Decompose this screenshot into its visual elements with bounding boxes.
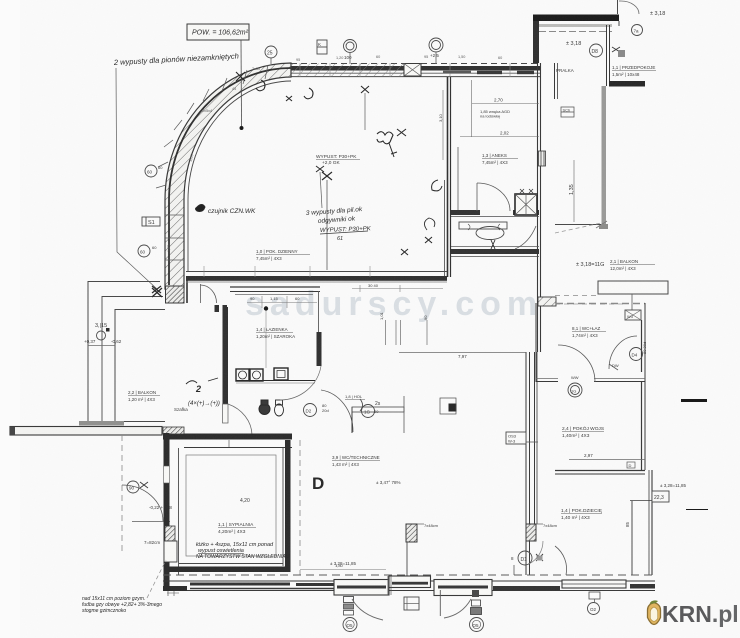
bathroom label — [256, 327, 295, 339]
kitchen door arc 2 — [515, 226, 536, 249]
living room right wall — [445, 77, 451, 277]
bottom door assembly — [388, 576, 484, 632]
bathroom right wall — [317, 291, 322, 366]
top wall hatch texture — [292, 64, 404, 77]
sypialnia top wall — [163, 427, 292, 448]
left slab long bar — [10, 427, 162, 436]
electrical marks living room — [196, 132, 443, 270]
right rooms top wall hatched block — [538, 297, 645, 306]
living room label — [256, 249, 310, 261]
curve wall end hatched block — [166, 276, 188, 303]
building right wall (upper) — [538, 63, 558, 352]
hall dim line horizontal — [379, 311, 526, 359]
curve wall masonry ticks — [156, 65, 268, 260]
door arc bottom right room — [555, 546, 567, 575]
bottom window box C — [434, 580, 492, 598]
sypialnia inner rect — [186, 455, 276, 556]
top wall window box with X — [404, 64, 421, 77]
bottom exterior wall band — [163, 581, 655, 591]
bottom pillars with hatch — [406, 523, 558, 577]
KRN.pl logo — [648, 600, 739, 627]
OS3 box near right wall — [506, 432, 538, 444]
dim ticks above bottom wall — [300, 563, 386, 570]
door arc top-right corner — [619, 1, 639, 14]
kitchen shaft box — [515, 189, 537, 215]
balkon label right — [576, 259, 655, 271]
kitchen door arc — [477, 183, 510, 211]
terrace room label — [128, 390, 160, 402]
note bottom-left with leader — [82, 560, 166, 614]
handwritten 3-line note middle — [306, 86, 406, 242]
top exterior wall band — [291, 63, 540, 77]
left terrace outline — [88, 282, 165, 423]
bottom left door hinge stack — [343, 597, 383, 632]
sypialnia labels — [218, 498, 256, 535]
hall label — [345, 394, 365, 400]
terrace sill gray bar — [79, 421, 124, 426]
curved exterior wall band — [165, 63, 291, 289]
kitchen dim lines — [438, 80, 539, 160]
right bathroom label — [572, 326, 606, 338]
top-right terrace top bar — [533, 0, 619, 63]
kitchen upper wall — [451, 210, 539, 217]
terrace upper gray lines — [539, 24, 612, 32]
circle D1 bottom — [511, 541, 543, 575]
labels top-right — [556, 11, 665, 77]
living room bottom wall — [186, 266, 447, 282]
right room dim line — [569, 453, 645, 468]
door arc salon to sypialnia area — [122, 485, 170, 522]
legend rectangle right — [555, 281, 668, 312]
right lower room walls — [630, 470, 652, 575]
circled markers along left curve — [138, 165, 163, 257]
door arc living to terrace — [201, 284, 217, 303]
box 22,3 right — [652, 491, 669, 502]
dashed line below slab — [121, 435, 123, 555]
right small hall walls — [607, 25, 646, 87]
circle markers above top wall — [265, 38, 443, 64]
door frame posts above bathroom — [215, 305, 228, 312]
sypialnia handwritten note — [196, 542, 291, 560]
kitchen inner wall line — [457, 147, 459, 210]
bottom exterior wall: dashed top line — [163, 574, 655, 576]
right rooms bottom wall — [555, 471, 645, 475]
bottom room dim texts — [330, 480, 687, 566]
bathroom door arc (to hall) — [228, 404, 252, 435]
circle marker left door — [127, 481, 148, 493]
handwritten note top-left — [113, 51, 245, 293]
tiny dim numbers along top wall — [167, 55, 502, 252]
outlet hooks under top wall — [256, 80, 313, 101]
bottom window box A — [334, 580, 389, 596]
hall fixtures bottom — [352, 396, 456, 433]
hall door arcs right of bathroom — [280, 366, 353, 432]
POW area box — [187, 24, 249, 130]
kitchen lower wall — [451, 247, 539, 257]
wypust label top of living room — [316, 154, 360, 208]
bathroom dims — [247, 296, 317, 308]
dashed vertical center-bottom — [299, 440, 301, 575]
bathroom fixtures: washbasins — [236, 368, 315, 383]
terrace X mark — [152, 288, 162, 297]
balcony railing right — [555, 86, 608, 233]
bathroom wc and bidet — [259, 400, 284, 416]
circle D8 — [590, 25, 643, 58]
kitchen counter and table — [459, 222, 507, 249]
SCh shaft box right — [561, 107, 574, 117]
sypialnia bottom wall — [169, 564, 290, 573]
right rooms outline — [536, 303, 645, 470]
circle 1G right — [568, 375, 582, 397]
pokoj dzieciecy label — [561, 508, 630, 527]
hall circles D2 — [304, 399, 381, 418]
wc techniczne label — [332, 455, 380, 467]
bathroom left wall — [223, 307, 229, 423]
bottom window box B — [389, 576, 431, 588]
room label kitchen annex — [480, 109, 518, 165]
shaft box on right wall — [539, 151, 546, 166]
sypialnia left wall — [164, 433, 179, 588]
bottom window box 3 — [562, 580, 626, 588]
small legend box with X — [625, 310, 641, 320]
scan noise overlay — [80, 10, 680, 625]
bottom left small ticks under wall — [167, 591, 179, 596]
hw mark 2 in hall — [186, 378, 220, 407]
right rooms door arcs — [558, 336, 637, 382]
circle D4 — [612, 342, 647, 368]
terrace dim labels — [84, 323, 122, 344]
terrace dimension verticals — [88, 345, 115, 347]
sypialnia right wall — [283, 440, 291, 572]
bathroom top wall double line — [230, 287, 320, 295]
top wall dark sill segments — [443, 71, 534, 74]
watermark sadurscy.com — [245, 285, 543, 323]
dim row under living room wall — [352, 283, 443, 292]
bathroom ceiling dot — [264, 306, 268, 310]
bottom right window circle — [588, 592, 601, 615]
svg-text:KRN.pl: KRN.pl — [662, 601, 739, 627]
isolated black dashes right margin — [681, 401, 708, 510]
pokoj label right — [562, 425, 604, 439]
building right wall (lower) — [526, 352, 537, 575]
